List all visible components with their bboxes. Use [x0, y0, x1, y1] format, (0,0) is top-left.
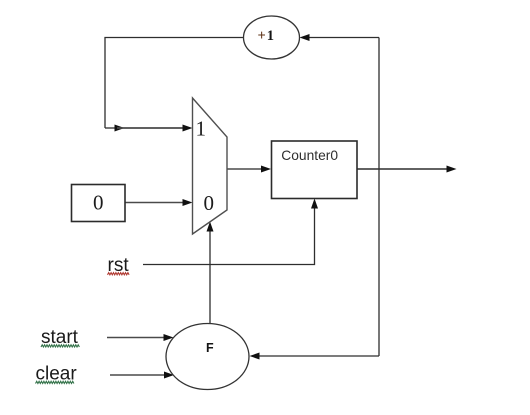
- start grammar squiggle: [41, 345, 79, 347]
- svg-text:+1: +1: [258, 28, 275, 44]
- mux M1: [193, 98, 228, 234]
- svg-text:1: 1: [196, 117, 207, 141]
- feedback vertical wire on right: [378, 38, 380, 357]
- wire from 0 box into mux input 0: [125, 202, 183, 204]
- clear grammar squiggle: [36, 381, 74, 383]
- svg-text:0: 0: [204, 191, 215, 215]
- wire bottom feedback into F: [259, 355, 379, 357]
- wire start input: [107, 337, 164, 339]
- incrementer +1: [244, 16, 300, 59]
- rst spell squiggle: [108, 273, 130, 275]
- svg-text:F: F: [206, 341, 214, 355]
- svg-text:0: 0: [93, 191, 104, 215]
- wire clear input: [110, 374, 165, 376]
- wire rst to Counter0 bottom: [143, 208, 315, 265]
- wire mux output into Counter0: [227, 168, 262, 170]
- constant 0 box: [72, 185, 126, 222]
- function F: [166, 324, 249, 390]
- wire from +1 output left and down to mux input 1: [105, 38, 244, 129]
- svg-text:Counter0: Counter0: [281, 148, 338, 163]
- wire Counter0 output: [357, 168, 447, 170]
- wire segment into mux input 1: [117, 127, 183, 129]
- wire F output to mux select: [209, 231, 211, 324]
- wire top feedback into +1: [309, 37, 379, 39]
- register Counter0: [272, 141, 358, 199]
